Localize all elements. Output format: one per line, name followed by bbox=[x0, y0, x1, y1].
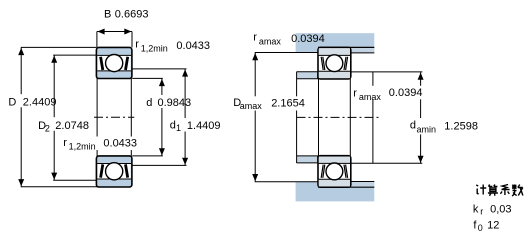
bearing side face left between sections bbox=[318, 79, 320, 157]
label d 0.9843 background bbox=[144, 95, 193, 108]
dimension d1: extension line top bbox=[132, 68, 186, 70]
label D 2.4409 background bbox=[6, 94, 59, 107]
svg-text:1.2598: 1.2598 bbox=[444, 120, 478, 132]
shaft shoulder bar lower bbox=[297, 156, 318, 163]
bore side face left bbox=[96, 78, 98, 156]
svg-text:1: 1 bbox=[176, 123, 181, 133]
label r1,2min 0.0433 (lower) background bbox=[61, 137, 140, 151]
dimension B: dimension line bbox=[97, 31, 132, 33]
svg-text:1,2min: 1,2min bbox=[141, 43, 168, 53]
svg-text:12: 12 bbox=[487, 220, 499, 232]
svg-text:r: r bbox=[480, 206, 483, 216]
svg-text:d: d bbox=[170, 120, 176, 132]
svg-text:r: r bbox=[253, 31, 257, 43]
label 计算系数 (hand-drawn glyphs) bbox=[476, 185, 523, 197]
svg-text:r: r bbox=[353, 88, 357, 100]
dimension damin: dimension line bbox=[420, 73, 422, 164]
shaft left end face bbox=[296, 72, 298, 163]
svg-text:0.0394: 0.0394 bbox=[291, 33, 325, 45]
svg-text:0.0394: 0.0394 bbox=[389, 87, 423, 99]
housing shoulder line top-left (and Damax top extension) bbox=[255, 52, 318, 54]
svg-text:B: B bbox=[104, 8, 111, 20]
label damin 1.2598 background bbox=[408, 118, 482, 135]
shaft seat line upper bbox=[297, 78, 318, 80]
shaft seat line lower bbox=[297, 155, 318, 157]
svg-text:d: d bbox=[410, 120, 416, 132]
dimension Damax: top arrowhead bbox=[252, 53, 258, 60]
dimension B: left arrowhead bbox=[97, 29, 104, 35]
dimension Damax: bottom arrowhead bbox=[252, 174, 258, 181]
shaft shoulder diameter line right (da bottom, damin extension) bbox=[351, 162, 423, 164]
dimension d: extension line bottom bbox=[132, 155, 163, 157]
svg-text:2.0748: 2.0748 bbox=[55, 120, 89, 132]
housing seat line top bbox=[318, 46, 374, 48]
svg-text:1.4409: 1.4409 bbox=[187, 120, 221, 132]
dimension D2: extension line bottom bbox=[53, 179, 96, 181]
dimension B: extension line left bbox=[96, 32, 98, 48]
dimension Damax: dimension line bbox=[254, 53, 256, 182]
svg-text:2.4409: 2.4409 bbox=[23, 96, 57, 108]
svg-text:r: r bbox=[63, 137, 67, 149]
svg-text:D: D bbox=[8, 96, 16, 108]
dimension D: top arrowhead bbox=[18, 48, 24, 55]
upper bearing section bbox=[318, 47, 351, 79]
label d1 1.4409 background bbox=[168, 118, 223, 132]
housing top band right lower lip bbox=[351, 47, 375, 53]
housing shoulder line bottom-right bbox=[351, 181, 375, 183]
centerline (axis) right drawing bbox=[297, 116, 379, 118]
housing bottom band bbox=[296, 182, 375, 202]
svg-text:2.1654: 2.1654 bbox=[271, 97, 305, 109]
dimension d1: bottom arrowhead bbox=[182, 158, 188, 165]
lower bearing section (mirror) bbox=[96, 156, 131, 187]
dimension B: extension line right bbox=[131, 32, 133, 48]
housing seat line bottom bbox=[318, 186, 374, 188]
lower bearing section (mirror) bbox=[318, 156, 351, 188]
shaft shoulder bar lower bottom edge bbox=[297, 162, 318, 164]
dimension d: bottom arrowhead bbox=[159, 148, 165, 155]
housing bottom band right upper lip bbox=[351, 182, 375, 188]
svg-text:0.0433: 0.0433 bbox=[103, 138, 137, 150]
dimension d: top arrowhead bbox=[159, 79, 165, 86]
section end face right bbox=[372, 72, 374, 163]
svg-text:0: 0 bbox=[478, 223, 483, 233]
dimension d1: extension line bottom bbox=[132, 164, 186, 166]
dimension damin: top arrowhead bbox=[418, 73, 424, 80]
glyph 计 bbox=[476, 185, 486, 195]
svg-text:0.9843: 0.9843 bbox=[158, 97, 192, 109]
dimension d1: top arrowhead bbox=[182, 69, 188, 76]
dimension D2: top arrowhead bbox=[51, 56, 57, 63]
dimension d: extension line top bbox=[132, 77, 163, 79]
housing shoulder line top-right bbox=[351, 52, 375, 54]
bore side face right bbox=[130, 78, 132, 156]
svg-text:0.0433: 0.0433 bbox=[176, 40, 210, 52]
dimension D2: dimension line bbox=[53, 55, 55, 180]
label ramax 0.0394 (mid) background bbox=[351, 86, 424, 100]
glyph 系 bbox=[500, 185, 509, 196]
dimension D: extension line bottom bbox=[21, 186, 98, 188]
shaft shoulder diameter line right (da top, ramax extension) bbox=[351, 71, 423, 73]
svg-text:k: k bbox=[473, 204, 479, 216]
svg-text:d: d bbox=[146, 97, 152, 109]
glyph 算 bbox=[488, 185, 498, 196]
dimension D: dimension line bbox=[20, 48, 22, 187]
dimension D2: bottom arrowhead bbox=[51, 173, 57, 180]
svg-text:f: f bbox=[473, 220, 477, 232]
dimension d: dimension line bbox=[161, 79, 163, 156]
shaft shoulder bar lower right edge bbox=[317, 156, 319, 163]
bearing side face right between sections bbox=[349, 79, 351, 157]
svg-text:amin: amin bbox=[417, 125, 437, 135]
svg-text:amax: amax bbox=[359, 92, 382, 102]
dimension D: bottom arrowhead bbox=[18, 179, 24, 186]
shaft shoulder bar upper right edge bbox=[317, 72, 319, 79]
dimension D2: extension line top bbox=[53, 54, 97, 56]
svg-text:1,2min: 1,2min bbox=[69, 142, 96, 152]
glyph 数 bbox=[512, 185, 523, 197]
shaft shoulder bar upper bbox=[297, 72, 318, 79]
label Damax 2.1654 background bbox=[231, 96, 308, 110]
svg-text:0,03: 0,03 bbox=[490, 204, 511, 216]
housing shoulder line bottom-left (and Damax bottom extension) bbox=[255, 181, 318, 183]
dimension B: right arrowhead bbox=[124, 29, 131, 35]
shaft shoulder bar upper top edge bbox=[297, 71, 318, 73]
svg-text:r: r bbox=[135, 39, 139, 51]
centerline (axis) left drawing bbox=[94, 116, 134, 118]
dimension damin: bottom arrowhead bbox=[418, 156, 424, 163]
svg-text:0.6693: 0.6693 bbox=[115, 8, 149, 20]
svg-text:amax: amax bbox=[259, 36, 282, 46]
dimension d1: dimension line bbox=[184, 69, 186, 165]
label D2 2.0748 background bbox=[36, 117, 92, 131]
dimension D: extension line top bbox=[21, 46, 97, 48]
svg-text:amax: amax bbox=[240, 101, 263, 111]
svg-text:2: 2 bbox=[45, 123, 50, 133]
upper bearing section bbox=[96, 47, 131, 78]
housing top band bbox=[296, 33, 375, 53]
